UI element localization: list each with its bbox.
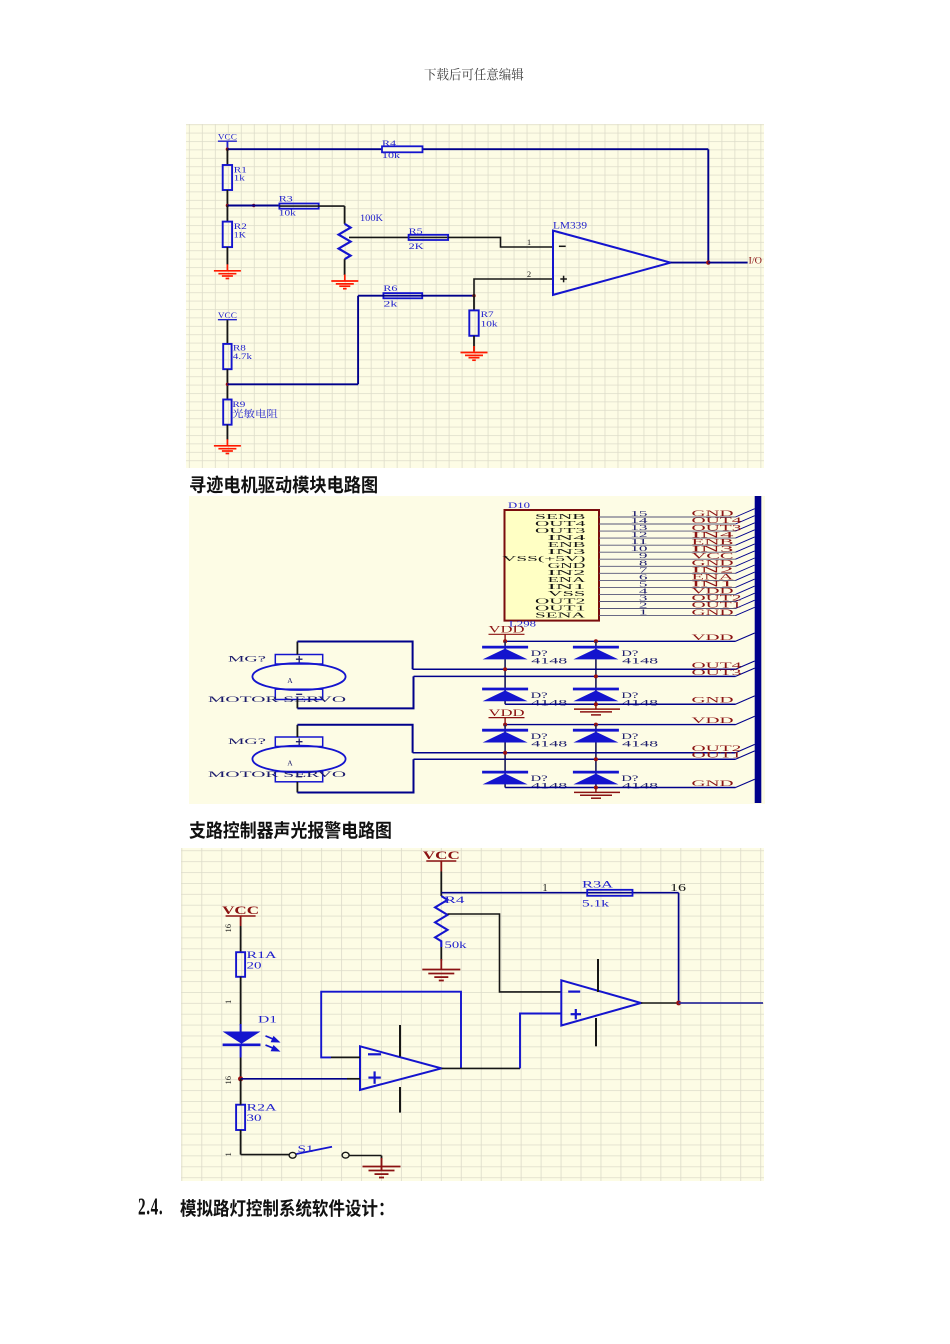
diode D? 4148 (g2 bottom col2) <box>573 772 658 790</box>
wire OUT4 rail <box>413 660 755 670</box>
svg-text:VCC: VCC <box>218 311 238 320</box>
wire diode column 1 (group 1) <box>504 641 506 704</box>
svg-text:MG?: MG? <box>228 736 266 746</box>
wire diode column 2 (group 2) <box>595 725 597 788</box>
motor MG? MOTOR SERVO (top) <box>208 653 346 704</box>
wire VCC rail to R4 <box>227 148 708 150</box>
IC D10 L298 <box>502 500 599 621</box>
svg-text:A: A <box>287 676 293 685</box>
wire R1A to LED <box>240 977 242 1025</box>
svg-text:16: 16 <box>223 1076 233 1085</box>
wire R4 to ground <box>440 947 442 961</box>
svg-text:R7: R7 <box>481 310 494 319</box>
wire LED to node <box>240 1045 242 1058</box>
wire node to R2 <box>226 206 228 222</box>
svg-text:GND: GND <box>692 778 734 788</box>
node diode column1/OUT4 <box>503 667 507 671</box>
svg-text:10k: 10k <box>279 208 297 217</box>
wire motor2 terminal B to OUT1 <box>296 782 298 793</box>
resistor R4 10k <box>382 139 423 160</box>
power symbol VCC (top) <box>423 850 460 896</box>
svg-text:2.4.: 2.4. <box>138 1196 163 1221</box>
svg-text:2K: 2K <box>409 242 424 251</box>
resistor R6 2k <box>383 284 422 308</box>
svg-text:1: 1 <box>639 608 648 617</box>
node junction R8/R9 <box>226 383 229 386</box>
svg-text:1: 1 <box>527 238 531 247</box>
bus bar (right power bus) <box>755 496 762 803</box>
op-amp U2A <box>360 1046 442 1090</box>
pin 2 wire / net OUT1 <box>599 600 755 610</box>
svg-text:R1A: R1A <box>247 950 278 960</box>
svg-text:4148: 4148 <box>531 782 567 791</box>
node diode column2/OUT1 <box>594 757 598 761</box>
svg-text:GND: GND <box>692 695 734 705</box>
node diode column2/GND <box>594 702 598 706</box>
wire U2A output to U2B non-inverting input <box>442 1067 521 1069</box>
svg-text:LM339: LM339 <box>553 221 588 231</box>
wire switch to ground <box>349 1155 381 1157</box>
svg-text:D10: D10 <box>508 500 530 510</box>
ground below switch <box>363 1167 401 1178</box>
svg-text:A: A <box>287 758 293 767</box>
svg-text:R4: R4 <box>382 139 397 148</box>
svg-text:R2A: R2A <box>247 1102 278 1112</box>
resistor R3 10k <box>279 195 319 218</box>
svg-text:50k: 50k <box>445 940 468 950</box>
svg-text:GND: GND <box>692 608 735 617</box>
diode D? 4148 (g1 top col1) <box>482 647 567 665</box>
switch S1 <box>289 1144 349 1158</box>
power symbol VDD (group 2) <box>489 708 526 725</box>
power symbol VCC (left) <box>222 905 259 952</box>
wire feedback loop U2A <box>321 992 461 1069</box>
pin 7 wire / net IN2 <box>599 565 755 575</box>
resistor R5 2K <box>409 227 449 251</box>
op-amp U2A power pins <box>399 1025 401 1057</box>
ground symbol (group 1) <box>574 704 620 715</box>
wire potentiometer to ground <box>344 259 346 275</box>
wire R8 to node <box>226 369 228 399</box>
svg-text:VCC: VCC <box>218 132 238 141</box>
svg-text:1k: 1k <box>234 174 246 183</box>
node output junction <box>706 260 710 264</box>
node diode column2/GND 2 <box>594 786 598 790</box>
ground symbol (group 2) <box>574 788 620 799</box>
resistor R2A 30 <box>236 1102 277 1130</box>
svg-text:VDD: VDD <box>489 708 526 718</box>
wire VDD rail group 2 <box>505 715 755 725</box>
svg-text:1K: 1K <box>234 231 246 240</box>
diode D? 4148 (g2 bottom col1) <box>482 772 567 790</box>
pin 10 wire / net IN3 <box>599 544 755 554</box>
diode D? 4148 (g2 top col1) <box>482 730 567 748</box>
node junction R1/R2/R3 <box>226 204 229 207</box>
svg-text:4148: 4148 <box>531 657 567 666</box>
wire output stub <box>708 262 747 264</box>
svg-text:16: 16 <box>223 924 233 933</box>
svg-text:VCC: VCC <box>423 850 460 862</box>
svg-text:5.1k: 5.1k <box>582 898 610 908</box>
svg-text:16: 16 <box>670 882 687 894</box>
svg-text:2k: 2k <box>383 299 398 308</box>
pin 9 wire / net VCC <box>599 551 755 561</box>
wire OUT3 rail <box>414 667 755 677</box>
wire VCC to R1 <box>226 149 228 165</box>
pin 14 wire / net OUT4 <box>599 516 755 526</box>
power symbol VCC (lower left) <box>218 311 238 344</box>
wire node to R3 <box>227 205 279 207</box>
ground below R9 <box>214 439 241 453</box>
pin 4 wire / net VDD <box>599 586 755 596</box>
wire GND rail (group 2) <box>505 778 755 788</box>
svg-text:VDD: VDD <box>692 715 734 725</box>
resistor R2 1K <box>223 222 247 248</box>
wire left branch through R6 to node <box>358 295 474 297</box>
node diode column2/OUT3 <box>594 674 598 678</box>
svg-text:R3A: R3A <box>582 879 614 889</box>
wire node to comparator branch <box>227 383 358 385</box>
svg-text:R4: R4 <box>445 895 466 905</box>
svg-text:VDD: VDD <box>692 632 734 642</box>
wire pot wiper to R5 <box>349 236 448 238</box>
svg-text:4148: 4148 <box>531 698 567 707</box>
wire right vertical to output node <box>678 893 680 1003</box>
svg-text:30: 30 <box>247 1113 263 1123</box>
wire GND rail (group 1) <box>505 695 755 705</box>
motor MG? MOTOR SERVO (bottom) <box>208 736 346 782</box>
diode D? 4148 (g1 top col2) <box>573 647 658 665</box>
pin 6 wire / net ENA <box>599 572 755 582</box>
pin 12 wire / net IN4 <box>599 530 755 540</box>
svg-text:VCC: VCC <box>222 905 259 917</box>
wire node to comparator pin 2 <box>474 279 553 296</box>
wire node to R7 <box>473 296 475 311</box>
wire output to right <box>679 1002 763 1004</box>
svg-text:100K: 100K <box>360 213 384 223</box>
svg-text:D1: D1 <box>258 1014 278 1024</box>
svg-text:4148: 4148 <box>622 740 658 749</box>
wire motor1 terminal A to OUT4 <box>296 642 298 655</box>
wire R7 to ground <box>473 336 475 351</box>
node junctions on VDD rail 2 <box>503 723 507 727</box>
pin 5 wire / net IN1 <box>599 579 755 589</box>
svg-text:1: 1 <box>223 1152 233 1156</box>
resistor R7 10k <box>469 310 498 336</box>
diode D? 4148 (g1 bottom col2) <box>573 689 658 707</box>
wire right vertical down to output <box>707 149 709 262</box>
pin 3 wire / net OUT2 <box>599 593 755 603</box>
wire R3 to potentiometer <box>279 205 344 207</box>
op-amp U1 LM339 <box>553 221 671 295</box>
svg-text:4148: 4148 <box>622 782 658 791</box>
diode D? 4148 (g1 bottom col1) <box>482 689 567 707</box>
svg-text:R3: R3 <box>279 195 293 204</box>
node junction R6/R7/pin2 <box>472 294 475 297</box>
wire R5 to comparator pin 1 <box>448 237 553 247</box>
svg-text:20: 20 <box>247 960 263 970</box>
node junction at VCC/R1/R4 <box>226 148 229 151</box>
svg-text:S1: S1 <box>298 1144 315 1154</box>
svg-text:2: 2 <box>527 270 531 279</box>
wire R1 to node <box>226 190 228 206</box>
wire VDD rail group 1 <box>505 632 755 642</box>
photoresistor R9 <box>223 400 277 425</box>
potentiometer 100K <box>339 213 384 259</box>
svg-text:10k: 10k <box>481 320 499 329</box>
power symbol VDD (group 1) <box>489 625 526 642</box>
resistor R3A 5.1k <box>582 879 633 908</box>
svg-text:10k: 10k <box>382 151 401 160</box>
ground below R7 <box>461 346 488 360</box>
wire node to R2A <box>240 1079 242 1105</box>
wire diode column 2 (group 1) <box>595 641 597 704</box>
op-amp U2B <box>561 980 641 1025</box>
wire node to U2A non-inverting input <box>241 1078 347 1080</box>
resistor R8 4.7k <box>223 344 253 370</box>
node output junction <box>641 1002 679 1004</box>
svg-text:R9: R9 <box>232 400 245 409</box>
wire motor1 terminal B to OUT3 <box>296 700 298 709</box>
node diode column1/OUT2 <box>503 751 507 755</box>
svg-text:MOTOR SERVO: MOTOR SERVO <box>208 769 346 779</box>
wire R2A to switch <box>240 1130 242 1155</box>
potentiometer R4 50k <box>435 895 467 950</box>
svg-text:1: 1 <box>542 882 548 894</box>
op-amp U2B power pins <box>597 959 599 992</box>
power symbol VCC (top left) <box>218 132 238 149</box>
ground below potentiometer <box>331 275 358 289</box>
wire OUT2 rail <box>413 743 755 753</box>
svg-text:1: 1 <box>223 1000 233 1004</box>
pin 13 wire / net OUT3 <box>599 523 755 533</box>
svg-text:R6: R6 <box>383 284 397 293</box>
resistor R1A 20 <box>236 950 277 977</box>
diode D? 4148 (g2 top col2) <box>573 730 658 748</box>
pin 1 wire / net GND <box>599 607 755 617</box>
wire main rail to R3A and 16 <box>441 892 678 894</box>
wire OUT1 rail <box>414 750 755 760</box>
node junctions on VDD rail <box>503 639 507 643</box>
node junction LED/R2A <box>238 1076 243 1081</box>
pin 11 wire / net ENB <box>599 537 755 547</box>
svg-text:4148: 4148 <box>622 657 658 666</box>
svg-text:4.7k: 4.7k <box>233 352 253 361</box>
svg-text:4148: 4148 <box>622 698 658 707</box>
pin 15 wire / net GND <box>599 509 755 519</box>
svg-text:I/O: I/O <box>749 255 763 265</box>
ground below R2 <box>214 264 241 278</box>
pin 8 wire / net GND <box>599 558 755 568</box>
wire motor2 terminal A to OUT2 <box>296 725 298 737</box>
svg-text:MG?: MG? <box>228 653 266 663</box>
svg-text:OUT3: OUT3 <box>692 667 742 677</box>
wire R9 to ground <box>226 425 228 440</box>
ground below R4 <box>440 959 442 970</box>
wire R4 wiper to op-amp 2 inverting input <box>448 914 562 992</box>
wire diode column 1 (group 2) <box>504 725 506 788</box>
svg-text:MOTOR SERVO: MOTOR SERVO <box>208 694 346 704</box>
svg-text:SENA: SENA <box>535 610 587 619</box>
wire output to junction <box>671 262 709 264</box>
svg-text:R5: R5 <box>409 227 423 236</box>
resistor R1 1k <box>223 165 247 190</box>
svg-text:4148: 4148 <box>531 740 567 749</box>
LED D1 <box>223 1014 279 1050</box>
svg-text:OUT1: OUT1 <box>692 750 742 760</box>
wire R2 to ground <box>226 247 228 264</box>
svg-text:VDD: VDD <box>489 625 526 635</box>
